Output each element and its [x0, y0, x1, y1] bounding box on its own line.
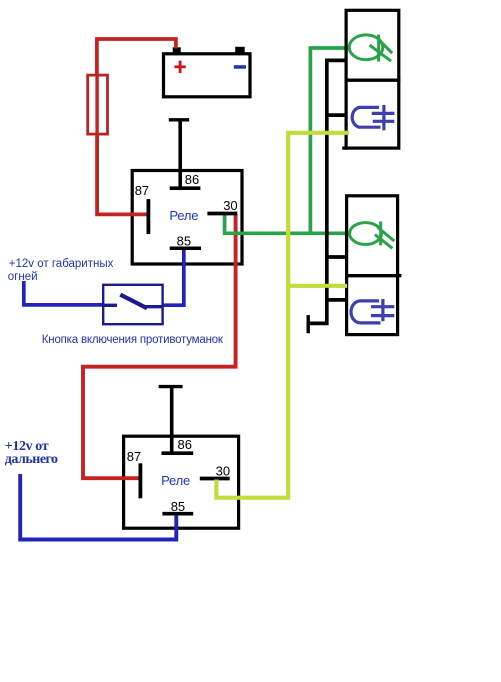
relay U1 box: [132, 171, 242, 265]
wire yellowgreen branch to fog lamp box 2: [288, 284, 347, 288]
svg-text:Реле: Реле: [169, 208, 198, 223]
svg-text:86: 86: [185, 172, 199, 187]
svg-text:Реле: Реле: [161, 473, 190, 488]
lamp box 2 divider: [345, 274, 401, 277]
battery plus terminal label: [174, 61, 185, 74]
relay U1 pin 30: [207, 212, 237, 216]
fog lamp L4 (blue): [351, 299, 394, 323]
wire blue switch to +12v parking lights: [24, 281, 103, 305]
svg-text:30: 30: [223, 198, 237, 213]
svg-text:86: 86: [178, 437, 192, 452]
high beam lamp L3 (green): [350, 221, 395, 248]
ground wire (black) for lamps: [309, 60, 348, 323]
wire yellowgreen relay2 pin30 to fog lamp box 1: [216, 133, 349, 498]
svg-text:огней: огней: [8, 271, 38, 283]
ground symbol: [307, 315, 310, 333]
svg-text:30: 30: [216, 464, 230, 479]
battery minus terminal label: [234, 65, 246, 69]
wire red battery to fuse: [97, 39, 176, 76]
fog lamp L2 (blue): [352, 105, 394, 130]
wire green relay1 pin30 to lamp box 2: [225, 215, 351, 234]
svg-text:+12v от габаритных: +12v от габаритных: [9, 258, 114, 270]
high beam lamp L1 (green): [349, 35, 392, 62]
relay U1 pin 86: [170, 186, 201, 190]
relay U2 box: [124, 436, 239, 528]
wire blue relay1 pin85 to switch: [164, 249, 184, 305]
wire red fuse to relay1 pin87: [97, 134, 148, 214]
lamp box 1 corner overshoot: [342, 147, 348, 150]
relay U2 pin86 top terminal bar: [159, 387, 183, 453]
svg-text:87: 87: [127, 449, 141, 464]
fuse F1: [88, 74, 108, 136]
relay U1 pin86 top terminal bar: [169, 120, 189, 188]
svg-text:85: 85: [177, 233, 191, 248]
switch S1 right contact stub: [145, 305, 164, 308]
relay U2 pin 30: [200, 477, 230, 481]
battery B1: [164, 47, 251, 97]
relay U1 pin 87: [146, 199, 150, 234]
svg-text:85: 85: [171, 499, 185, 514]
svg-text:Кнопка включения противотумано: Кнопка включения противотуманок: [42, 334, 224, 346]
lamp box 2: [347, 196, 398, 335]
switch S1 blade: [120, 295, 147, 309]
svg-text:дальнего: дальнего: [5, 452, 58, 467]
switch S1 left contact stub: [103, 304, 118, 307]
wire red relay1 pin30 to relay2 pin87: [83, 215, 236, 479]
wire blue relay2 pin85 to +12v high beam: [20, 474, 176, 540]
svg-text:87: 87: [135, 183, 149, 198]
relay U1 pin 85: [170, 246, 201, 250]
lamp box 1: [346, 10, 399, 148]
lamp box 1 divider: [345, 79, 400, 82]
relay U2 pin 85: [162, 512, 193, 516]
wire green branch up to lamp box 1: [310, 48, 350, 233]
switch S1 box: [103, 285, 162, 324]
relay U2 pin 87: [138, 463, 142, 498]
relay U2 pin 86: [162, 451, 194, 455]
